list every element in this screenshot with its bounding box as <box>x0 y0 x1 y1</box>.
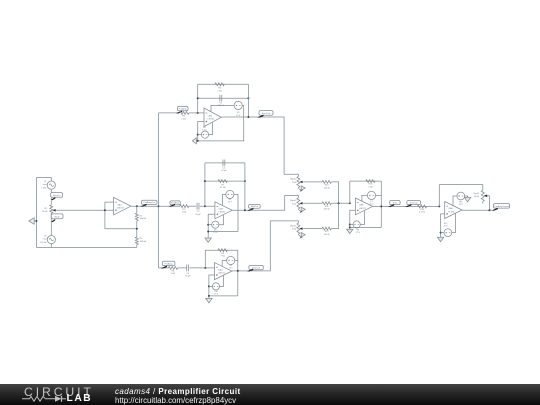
wire to R2 <box>136 206 138 213</box>
svg-text:10 kΩ: 10 kΩ <box>42 211 48 213</box>
wire R10 to sum bus <box>331 182 338 203</box>
wire Rpot2 wiper to R10 <box>303 181 322 183</box>
wire summing feedback right <box>380 181 382 227</box>
svg-text:10 µF: 10 µF <box>195 214 201 216</box>
voltage source V1 (sine 1 kHz) <box>47 181 55 189</box>
wire OA1 output <box>131 205 159 207</box>
svg-text:1 kΩ: 1 kΩ <box>292 203 297 205</box>
wire mid feedback cap branch <box>205 162 245 164</box>
svg-text:1 kΩ: 1 kΩ <box>292 182 297 184</box>
wire bass output to Rpot2 <box>221 117 298 176</box>
svg-text:OA2: OA2 <box>208 115 213 118</box>
wire V6 to OA3 V- pin <box>219 215 224 225</box>
junction output inverting node <box>438 205 440 207</box>
voltage source V3 (+15 V) <box>234 101 242 109</box>
ground summing stub <box>349 227 351 229</box>
resistor R9 (treble feedback) <box>218 249 227 252</box>
svg-text:15 V: 15 V <box>459 204 464 206</box>
wire input left return <box>35 178 37 248</box>
svg-text:LM741: LM741 <box>218 273 225 275</box>
label R12 value <box>324 231 330 236</box>
svg-text:1 kΩ: 1 kΩ <box>292 229 297 231</box>
svg-text:LM741: LM741 <box>359 208 366 210</box>
junction mid output <box>244 209 246 211</box>
svg-text:R6: R6 <box>218 88 222 90</box>
svg-text:R9: R9 <box>221 253 225 255</box>
voltage source V8 (7.5 V) <box>353 221 360 228</box>
wire R4 to OA2 <box>189 112 204 114</box>
svg-text:10 µF: 10 µF <box>185 276 191 278</box>
wire V4 to OA2 V- pin <box>209 123 213 135</box>
wire bass feedback cap branch <box>198 97 249 99</box>
label V4 value <box>202 127 207 132</box>
wire R1 to V2 <box>50 213 52 235</box>
wire V5 to ground rail mid <box>234 194 238 231</box>
wire R3 to ground rail <box>136 245 138 248</box>
label R16 value <box>419 209 426 214</box>
label R10 value <box>324 185 330 190</box>
label R4 value <box>181 116 186 121</box>
wire mid output to Rpot3 <box>232 196 298 211</box>
voltage source V11 (+15 V) <box>457 192 465 200</box>
potentiometer Rpot5 wiper <box>484 195 487 198</box>
svg-text:100 Hz: 100 Hz <box>40 242 47 244</box>
wire summing feedback top <box>350 180 382 182</box>
svg-text:15 V: 15 V <box>369 204 374 206</box>
voltage source V9 (+15 V) <box>227 256 235 264</box>
wire V7 to fb right <box>376 194 382 196</box>
svg-text:LM741: LM741 <box>208 119 215 121</box>
junction ground rail <box>197 140 199 142</box>
ground bass stage <box>192 138 196 144</box>
svg-text:Rpot5: Rpot5 <box>474 192 480 195</box>
svg-text:100 kΩ: 100 kΩ <box>140 241 147 243</box>
wire ground return rail <box>36 246 136 248</box>
label V11 value <box>459 202 464 207</box>
wire Rpot5 stub <box>482 201 484 203</box>
net flag MicIn <box>51 214 63 222</box>
wire treble output to Rpot4 <box>232 221 299 271</box>
capacitor C4 (mid feedback) <box>223 160 225 167</box>
svg-text:R7: R7 <box>221 184 225 186</box>
wire treble feedback top <box>205 249 238 251</box>
svg-text:R3: R3 <box>140 238 144 240</box>
svg-text:R5: R5 <box>183 209 187 211</box>
wire R2 to R3 <box>136 221 138 237</box>
wire to V12 <box>441 232 444 234</box>
svg-text:MusicIn: MusicIn <box>53 195 61 197</box>
label R8 value <box>171 270 176 275</box>
junction V12 tap <box>440 232 442 234</box>
svg-text:7.5 V: 7.5 V <box>202 130 207 132</box>
capacitor C5 (treble input) <box>187 265 189 272</box>
svg-text:7.5 V: 7.5 V <box>355 232 360 234</box>
wire treble feedback right <box>237 250 239 296</box>
resistor R2 <box>135 213 138 221</box>
svg-text:15 V: 15 V <box>228 202 233 204</box>
op-amp OA3 <box>215 202 232 219</box>
wire rail to mid input <box>159 205 181 207</box>
capacitor C3 (mid input) <box>197 203 199 210</box>
label R1 value <box>42 208 48 213</box>
wire bass feedback top <box>198 83 249 85</box>
wire output feedback top <box>439 185 483 191</box>
svg-text:R16: R16 <box>420 209 425 211</box>
potentiometer Rpot3 wiper <box>299 202 302 204</box>
svg-text:100 kΩ: 100 kΩ <box>140 218 147 220</box>
capacitor C2 (bass) <box>220 95 222 102</box>
net flag BassOut <box>257 111 273 118</box>
net flag Sum <box>388 201 400 208</box>
resistor R10 <box>322 180 331 183</box>
junction feedback branch left <box>197 97 199 99</box>
wire R12 to sum bus <box>331 203 338 228</box>
resistor R7 (mid feedback) <box>218 180 227 183</box>
svg-text:100 Ω: 100 Ω <box>324 209 330 211</box>
svg-text:C4: C4 <box>223 167 227 169</box>
svg-text:OA5: OA5 <box>359 204 364 207</box>
ground V11 <box>464 197 470 201</box>
wire OA3 + input bias <box>208 214 215 231</box>
svg-text:6.1 kΩ: 6.1 kΩ <box>419 212 426 214</box>
resistor R5 <box>180 205 189 208</box>
wire OA3 V+ pin <box>223 194 226 205</box>
ground summing stage <box>347 229 353 233</box>
junction mid inverting node <box>204 205 206 207</box>
svg-text:Rpot3: Rpot3 <box>290 199 297 202</box>
junction sum bus mid <box>338 202 340 204</box>
label R7 value <box>220 184 226 189</box>
svg-text:15 V: 15 V <box>229 268 234 270</box>
op-amp OA2 <box>204 108 221 127</box>
wire C5 to OA4 <box>190 267 215 269</box>
label V2 value <box>40 236 47 244</box>
ground flag Rpot2 <box>298 186 305 192</box>
ground treble stage <box>206 298 212 302</box>
wire C3 to OA3 <box>200 205 215 207</box>
voltage source V4 (7.5 V) <box>201 131 208 138</box>
wire rail to treble input <box>159 267 169 269</box>
wire V3 to ground rail <box>197 105 244 140</box>
svg-text:C5: C5 <box>186 273 190 275</box>
svg-text:OA3: OA3 <box>219 208 224 211</box>
svg-text:V3: V3 <box>237 112 240 114</box>
ground flag Rpot3 <box>298 207 305 213</box>
svg-text:TL081: TL081 <box>448 211 455 213</box>
voltage source V7 (+15 V) <box>367 191 375 199</box>
wire treble ground rail <box>209 295 238 297</box>
ground bass stub <box>196 140 197 142</box>
svg-text:7.5 V: 7.5 V <box>214 294 219 296</box>
potentiometer Rpot3 <box>297 198 300 209</box>
wire summing output to OA6 <box>372 205 439 207</box>
svg-text:1 kΩ: 1 kΩ <box>181 119 186 121</box>
wire mid feedback left <box>204 163 206 206</box>
label C5 value <box>185 273 191 278</box>
wire Rpot4 wiper to R12 <box>303 228 322 230</box>
wire R8 to C5 <box>178 267 187 269</box>
net flag treble input <box>161 261 175 268</box>
wire OA6 V+ pin <box>453 196 457 206</box>
svg-text:100 Ω: 100 Ω <box>324 234 330 236</box>
junction V6 tap <box>207 224 209 226</box>
svg-text:OA1: OA1 <box>117 203 122 206</box>
wire Rpot5 wiper to output <box>487 196 489 210</box>
net flag MusicIn <box>51 193 63 201</box>
svg-text:1 kΩ: 1 kΩ <box>182 212 187 214</box>
svg-text:R1: R1 <box>45 208 49 210</box>
resistor R6 (bass feedback) <box>215 83 224 86</box>
wire to V8 <box>350 224 353 226</box>
resistor R12 <box>322 227 331 230</box>
wire mid ground rail <box>208 231 238 233</box>
svg-text:SumOut: SumOut <box>410 201 418 204</box>
resistor R3 <box>135 237 138 245</box>
voltage source V10 (7.5 V) <box>212 283 219 290</box>
label C4 value <box>221 167 227 172</box>
junction mid ground <box>207 231 209 233</box>
svg-text:PreAmp: PreAmp <box>165 262 174 265</box>
wire summing feedback left <box>349 181 351 203</box>
potentiometer R1 wiper <box>52 209 55 211</box>
label V10 value <box>214 291 219 296</box>
label V7 value <box>369 201 374 206</box>
op-amp OA4 <box>215 263 232 280</box>
wire V1 to R1 <box>50 189 52 205</box>
junction OA1 input crossing <box>104 209 106 211</box>
junction bass inverting node <box>197 112 199 114</box>
svg-text:Rpot2: Rpot2 <box>290 178 297 181</box>
svg-text:7 kΩ: 7 kΩ <box>217 90 222 92</box>
wire Rpot3 wiper to R11 <box>303 202 322 204</box>
wire V8 to OA5 V- pin <box>360 211 364 225</box>
wire OA2 V+ pin <box>211 105 234 111</box>
wire mid feedback R branch <box>205 180 245 182</box>
label R11 value <box>324 206 330 211</box>
ground treble stub <box>208 296 210 299</box>
svg-text:Rpot4: Rpot4 <box>290 224 297 227</box>
label V6 value <box>213 229 218 234</box>
ground flag Rpot4 <box>298 233 305 239</box>
svg-text:R4: R4 <box>182 116 186 118</box>
resistor R11 <box>322 202 331 205</box>
svg-text:Sum: Sum <box>393 202 398 204</box>
junction summing ground <box>349 226 351 228</box>
wire R1 wiper to OA1 + <box>56 209 114 211</box>
svg-text:1 kHz: 1 kHz <box>41 187 46 189</box>
svg-text:PreAmp: PreAmp <box>171 202 180 205</box>
op-amp OA1 <box>114 197 131 215</box>
potentiometer Rpot3 value <box>290 199 297 205</box>
net flag PreAmpOutput <box>492 204 510 211</box>
junction mid fb right <box>244 180 246 182</box>
ground input <box>29 218 34 224</box>
svg-text:TrebOut: TrebOut <box>252 267 260 270</box>
svg-text:MidOut: MidOut <box>251 205 258 208</box>
svg-text:OA4: OA4 <box>218 268 223 271</box>
svg-text:10 µF: 10 µF <box>221 170 227 172</box>
svg-text:100 Ω: 100 Ω <box>324 187 330 189</box>
wire V11 to local ground <box>465 196 468 197</box>
svg-text:LM741: LM741 <box>219 212 226 214</box>
resistor R13 (summing feedback) <box>366 180 375 183</box>
label R6 value <box>217 88 222 93</box>
wire ground stub <box>34 220 36 222</box>
op-amp OA6 <box>445 202 462 219</box>
wire OA5 V+ pin <box>362 195 368 201</box>
svg-text:V2: V2 <box>44 236 47 238</box>
wire OA6 + input bias <box>441 214 445 237</box>
svg-text:R10: R10 <box>325 185 330 187</box>
wire OA6 output <box>462 209 492 211</box>
svg-text:PreAmp: PreAmp <box>179 108 188 111</box>
voltage source V5 (+15 V) <box>226 190 234 198</box>
potentiometer Rpot2 value <box>290 178 297 184</box>
wire treble feedback left <box>204 250 206 268</box>
junction V8 tap <box>349 224 351 226</box>
label R13 value <box>368 184 373 189</box>
svg-text:PreAmpOutput: PreAmpOutput <box>494 205 509 208</box>
wire mid feedback right <box>244 163 246 210</box>
svg-text:sine: sine <box>43 184 48 186</box>
svg-text:V1: V1 <box>44 181 47 183</box>
svg-text:15 V: 15 V <box>444 226 449 228</box>
label V12 value <box>444 223 449 228</box>
wire OA2 + input bias <box>198 122 204 141</box>
resistor R4 <box>180 111 189 114</box>
net flag PreAmpOut <box>140 200 157 207</box>
wire OA5 + input bias <box>350 210 356 227</box>
voltage source V6 (7.5 V) <box>212 221 219 228</box>
potentiometer Rpot2 <box>297 176 300 187</box>
ground output stage <box>437 237 443 241</box>
label V9 value <box>229 265 234 270</box>
wire OA4 V+ pin <box>222 261 226 267</box>
label R5 value <box>182 209 187 214</box>
ground mid stage <box>205 238 211 242</box>
net flag MidOut <box>247 204 260 211</box>
wire OA4 + input bias <box>209 275 215 296</box>
junction treble ground <box>208 295 210 297</box>
voltage source V2 (sine 100 Hz) <box>47 236 55 244</box>
label C2 value <box>218 102 225 107</box>
wire summing ground rail <box>350 226 382 228</box>
junction treble output <box>237 270 239 272</box>
svg-text:R8: R8 <box>171 270 175 272</box>
label C3 value <box>195 211 201 216</box>
resistor R8 <box>168 266 177 269</box>
op-amp OA5 <box>355 198 372 215</box>
svg-text:R12: R12 <box>325 231 330 233</box>
svg-text:OA6: OA6 <box>448 207 453 210</box>
junction output node <box>488 209 490 211</box>
wire bass feedback left <box>197 84 199 113</box>
voltage source V12 (15 V) <box>444 229 452 237</box>
CircuitLab logo resistor-diode squiggle <box>22 396 66 402</box>
wire rail to bass input <box>159 112 180 114</box>
label R9 value <box>221 253 226 258</box>
wire bass feedback right <box>247 84 249 117</box>
svg-text:7 kΩ: 7 kΩ <box>221 256 226 258</box>
wire V1 top <box>36 178 51 181</box>
svg-text:7.5 V: 7.5 V <box>213 232 218 234</box>
wire distribution rail <box>158 113 160 268</box>
svg-text:BassOut: BassOut <box>262 112 271 115</box>
wire R5 to C3 <box>189 205 196 207</box>
potentiometer Rpot4 <box>297 223 300 234</box>
wire to V4 <box>198 134 202 136</box>
junction V10 tap <box>208 285 210 287</box>
potentiometer Rpot2 wiper <box>299 181 302 183</box>
wire V10 to OA4 V- pin <box>220 276 224 287</box>
wire OA1 feedback loop <box>105 202 137 229</box>
label V1 value <box>41 181 47 189</box>
junction bass output <box>247 116 249 118</box>
resistor R16 <box>417 205 426 208</box>
svg-text:MicIn: MicIn <box>54 217 60 219</box>
svg-text:C2: C2 <box>219 102 223 104</box>
wire to V10 <box>209 285 212 287</box>
potentiometer Rpot4 value <box>290 224 297 230</box>
label R3 value <box>140 238 147 243</box>
svg-text:R11: R11 <box>325 206 330 208</box>
potentiometer Rpot4 wiper <box>299 227 302 229</box>
wire to V6 <box>208 224 212 226</box>
net flag SumOut <box>405 201 420 207</box>
junction OA1 output node <box>136 205 138 207</box>
junction mid fb left <box>204 180 206 182</box>
junction summing output <box>380 205 382 207</box>
svg-text:R13: R13 <box>368 184 373 186</box>
potentiometer R1 <box>50 205 53 213</box>
label V3 value <box>236 112 241 117</box>
potentiometer Rpot5 <box>481 190 484 201</box>
ground mid stub <box>207 232 209 239</box>
junction feedback tap <box>136 228 138 230</box>
label V5 value <box>228 199 233 204</box>
label R2 value <box>140 215 147 220</box>
junction input ground <box>35 220 37 222</box>
junction rail tap <box>158 205 160 207</box>
wire output feedback left <box>438 185 440 207</box>
net flag bass input <box>176 106 188 113</box>
svg-text:7 kΩ: 7 kΩ <box>368 187 373 189</box>
net flag TrebOut <box>247 265 263 271</box>
junction feedback branch right <box>247 97 249 99</box>
svg-text:1 kΩ: 1 kΩ <box>171 273 176 275</box>
junction summing inverting node <box>349 202 351 204</box>
net flag mid input <box>169 201 181 207</box>
wire V2 bottom <box>50 244 52 248</box>
svg-text:R2: R2 <box>140 215 144 217</box>
svg-text:47 kΩ: 47 kΩ <box>220 187 226 189</box>
svg-text:sine: sine <box>43 239 48 241</box>
wire V9 to fb right <box>235 260 238 262</box>
svg-text:LM741: LM741 <box>117 208 124 210</box>
svg-text:PreAmpOut: PreAmpOut <box>144 201 156 204</box>
junction treble inverting node <box>204 267 206 269</box>
wire R11 to summing node <box>331 202 350 204</box>
svg-text:C3: C3 <box>197 211 201 213</box>
svg-text:10 kΩ: 10 kΩ <box>474 196 480 198</box>
label Rpot5 value <box>474 192 480 198</box>
label V8 value <box>355 230 360 235</box>
wire V12 to OA6 V- pin <box>452 214 456 233</box>
junction V4 tap <box>197 134 199 136</box>
